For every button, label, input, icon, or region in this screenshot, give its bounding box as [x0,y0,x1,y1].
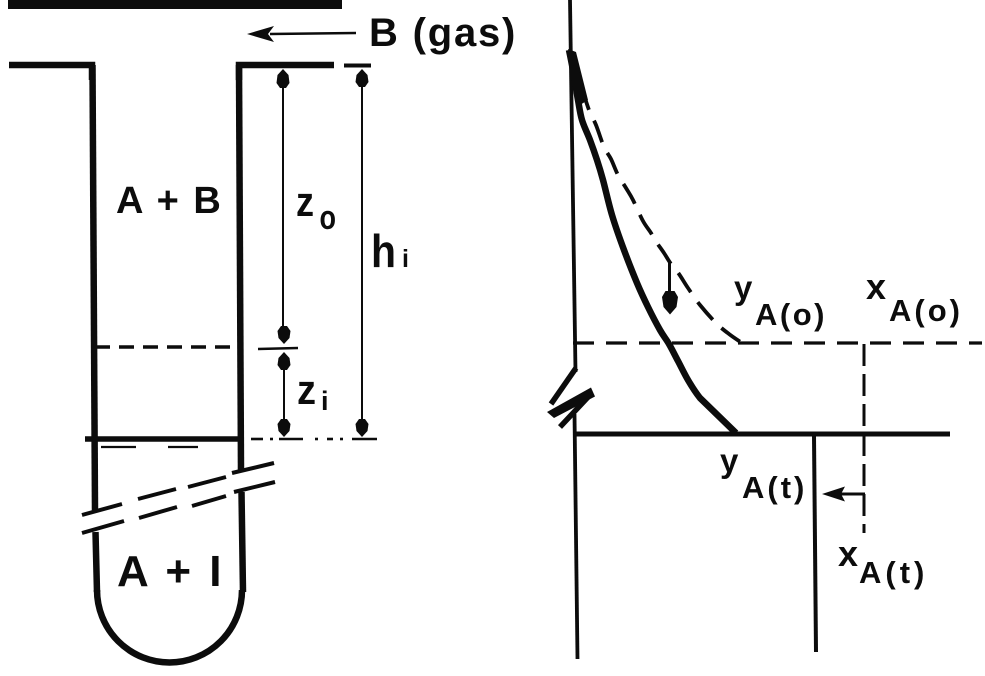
svg-text:A(o): A(o) [889,293,963,328]
svg-text:z: z [297,366,316,413]
shift-down arrow [662,262,678,315]
tube rounded bottom [97,590,242,662]
vertical dashed line [863,344,866,533]
left-pointing arrow [822,487,865,502]
svg-text:A(t): A(t) [859,555,928,590]
svg-text:x: x [866,266,886,307]
meniscus mark 1 [101,446,136,448]
svg-text:A + B: A + B [116,180,223,222]
solid concentration curve [569,50,736,433]
initial level dashed line [95,345,236,349]
tube left wall upper [93,65,96,511]
graph y-axis [570,0,576,372]
svg-text:y: y [734,269,753,306]
svg-text:A(o): A(o) [755,297,827,332]
label h_i [371,225,409,277]
svg-text:A + I: A + I [117,547,225,596]
dimension z_o arrow [258,69,298,349]
tube top-left wall [9,65,92,80]
arrow B gas [247,26,356,42]
label x_A(t) [838,533,928,590]
label z_o [296,178,336,237]
liquid surface line [85,436,241,442]
axis break zigzag [547,368,595,427]
tube right wall upper [239,65,241,472]
meniscus mark 2 [168,446,198,448]
horizontal dashed level line [573,341,982,344]
liquid level extension dash-dot line [251,438,377,441]
tube right wall lower [242,492,244,592]
label x_A(o) [866,266,963,328]
horizontal solid line [573,432,950,437]
vertical solid line x_A [814,436,816,652]
dashed initial curve [574,60,742,343]
svg-text:o: o [320,199,337,237]
dimension z_i arrow [278,352,291,437]
label y_A(o) [734,269,827,332]
tube left wall lower [96,532,98,592]
svg-text:i: i [321,386,329,416]
tube break mark lower diagonal [82,482,275,533]
graph y-axis lower [575,414,578,659]
tube break mark upper diagonal [82,463,274,515]
dimension h_i arrow [344,66,371,438]
label z_i [297,366,329,416]
svg-text:x: x [838,533,858,574]
svg-text:h: h [371,225,396,277]
tube top-right wall [239,65,334,80]
svg-text:B (gas): B (gas) [369,11,517,55]
solid curve top wedge [568,49,588,105]
svg-text:z: z [296,178,314,225]
svg-text:i: i [402,245,409,273]
label y_A(t) [720,442,807,505]
svg-text:A(t): A(t) [742,470,807,505]
svg-text:y: y [720,442,739,479]
top wall bar [8,0,342,9]
